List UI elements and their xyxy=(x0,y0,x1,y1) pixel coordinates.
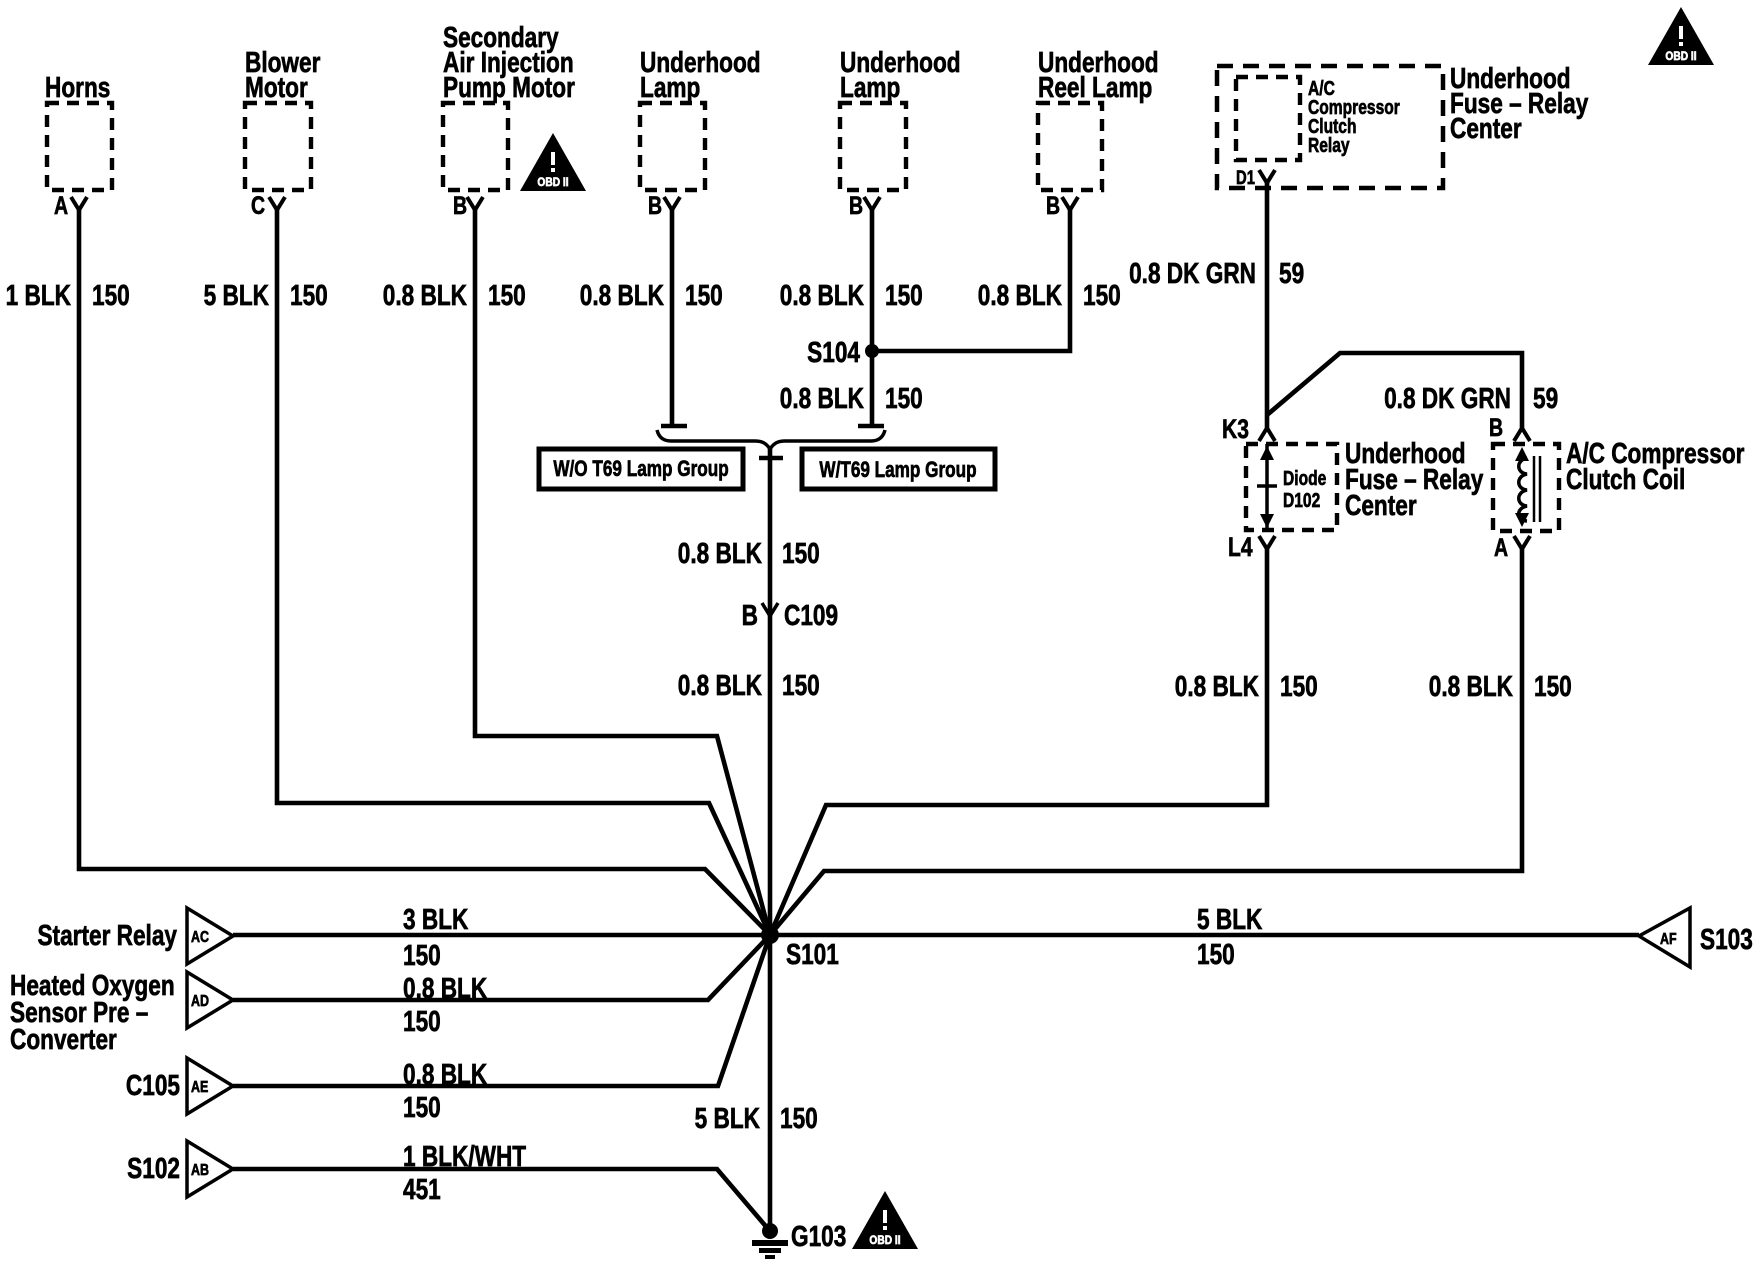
svg-text:OBD II: OBD II xyxy=(869,1234,900,1247)
svg-text:0.8 DK GRN: 0.8 DK GRN xyxy=(1384,381,1511,414)
svg-text:L4: L4 xyxy=(1228,533,1253,563)
svg-text:C105: C105 xyxy=(126,1068,180,1101)
svg-text:0.8 BLK: 0.8 BLK xyxy=(678,668,762,701)
svg-text:150: 150 xyxy=(885,278,923,311)
svg-text:S104: S104 xyxy=(807,335,860,368)
svg-text:150: 150 xyxy=(290,278,328,311)
svg-text:451: 451 xyxy=(403,1172,441,1205)
svg-text:Horns: Horns xyxy=(45,70,110,103)
svg-text:Center: Center xyxy=(1450,111,1522,144)
svg-text:0.8 BLK: 0.8 BLK xyxy=(678,536,762,569)
svg-text:B: B xyxy=(742,598,758,631)
svg-text:Starter Relay: Starter Relay xyxy=(37,918,177,951)
svg-text:3 BLK: 3 BLK xyxy=(403,902,469,935)
svg-text:W/O T69 Lamp Group: W/O T69 Lamp Group xyxy=(553,457,728,482)
svg-text:Diode: Diode xyxy=(1283,467,1326,489)
svg-text:W/T69 Lamp Group: W/T69 Lamp Group xyxy=(819,458,976,483)
svg-text:K3: K3 xyxy=(1222,415,1249,445)
svg-text:150: 150 xyxy=(92,278,130,311)
svg-text:150: 150 xyxy=(780,1101,818,1134)
svg-text:B: B xyxy=(849,192,863,220)
svg-text:0.8 BLK: 0.8 BLK xyxy=(580,278,664,311)
svg-text:150: 150 xyxy=(488,278,526,311)
svg-text:150: 150 xyxy=(782,536,820,569)
svg-text:0.8 BLK: 0.8 BLK xyxy=(383,278,467,311)
svg-text:Converter: Converter xyxy=(10,1022,117,1055)
svg-text:0.8 BLK: 0.8 BLK xyxy=(1175,669,1259,702)
svg-text:150: 150 xyxy=(403,938,441,971)
svg-text:B: B xyxy=(453,192,467,220)
svg-text:0.8 BLK: 0.8 BLK xyxy=(780,278,864,311)
svg-text:AB: AB xyxy=(191,1162,209,1180)
svg-text:AE: AE xyxy=(191,1079,208,1097)
svg-text:B: B xyxy=(1489,414,1503,442)
svg-text:0.8 BLK: 0.8 BLK xyxy=(780,381,864,414)
svg-text:150: 150 xyxy=(1280,669,1318,702)
svg-text:D1: D1 xyxy=(1236,167,1255,188)
svg-text:G103: G103 xyxy=(791,1219,846,1252)
svg-text:150: 150 xyxy=(403,1004,441,1037)
svg-text:AD: AD xyxy=(191,993,209,1011)
svg-text:5 BLK: 5 BLK xyxy=(204,278,270,311)
svg-text:0.8 BLK: 0.8 BLK xyxy=(978,278,1062,311)
svg-text:Motor: Motor xyxy=(245,70,308,103)
svg-text:C: C xyxy=(251,192,265,220)
svg-text:OBD II: OBD II xyxy=(537,176,568,189)
svg-text:C109: C109 xyxy=(784,598,838,631)
svg-text:59: 59 xyxy=(1533,381,1558,414)
svg-text:1 BLK/WHT: 1 BLK/WHT xyxy=(403,1139,526,1172)
svg-text:1 BLK: 1 BLK xyxy=(6,278,72,311)
svg-text:5 BLK: 5 BLK xyxy=(695,1101,761,1134)
svg-text:0.8 BLK: 0.8 BLK xyxy=(403,971,487,1004)
svg-text:AC: AC xyxy=(191,929,209,947)
svg-text:150: 150 xyxy=(1534,669,1572,702)
svg-text:S101: S101 xyxy=(786,937,839,970)
svg-text:150: 150 xyxy=(403,1090,441,1123)
svg-text:Center: Center xyxy=(1345,488,1417,521)
svg-text:59: 59 xyxy=(1279,256,1304,289)
svg-text:A: A xyxy=(54,192,68,220)
svg-text:150: 150 xyxy=(885,381,923,414)
svg-text:150: 150 xyxy=(1197,937,1235,970)
svg-text:5 BLK: 5 BLK xyxy=(1197,902,1263,935)
svg-text:150: 150 xyxy=(782,668,820,701)
svg-text:150: 150 xyxy=(685,278,723,311)
svg-text:Lamp: Lamp xyxy=(640,70,700,103)
svg-text:S103: S103 xyxy=(1700,922,1753,955)
svg-text:A: A xyxy=(1494,534,1508,562)
svg-text:0.8 BLK: 0.8 BLK xyxy=(403,1057,487,1090)
svg-text:0.8 BLK: 0.8 BLK xyxy=(1429,669,1513,702)
svg-text:150: 150 xyxy=(1083,278,1121,311)
svg-text:Clutch Coil: Clutch Coil xyxy=(1566,462,1685,495)
svg-text:S102: S102 xyxy=(127,1151,180,1184)
svg-text:OBD II: OBD II xyxy=(1665,50,1696,63)
svg-text:D102: D102 xyxy=(1283,489,1320,511)
svg-text:Relay: Relay xyxy=(1308,134,1350,156)
svg-text:Pump Motor: Pump Motor xyxy=(443,70,575,103)
svg-text:Lamp: Lamp xyxy=(840,70,900,103)
svg-text:0.8 DK GRN: 0.8 DK GRN xyxy=(1129,256,1256,289)
svg-text:B: B xyxy=(648,192,662,220)
svg-text:Reel Lamp: Reel Lamp xyxy=(1038,70,1152,103)
svg-text:B: B xyxy=(1046,192,1060,220)
svg-text:AF: AF xyxy=(1660,931,1677,949)
